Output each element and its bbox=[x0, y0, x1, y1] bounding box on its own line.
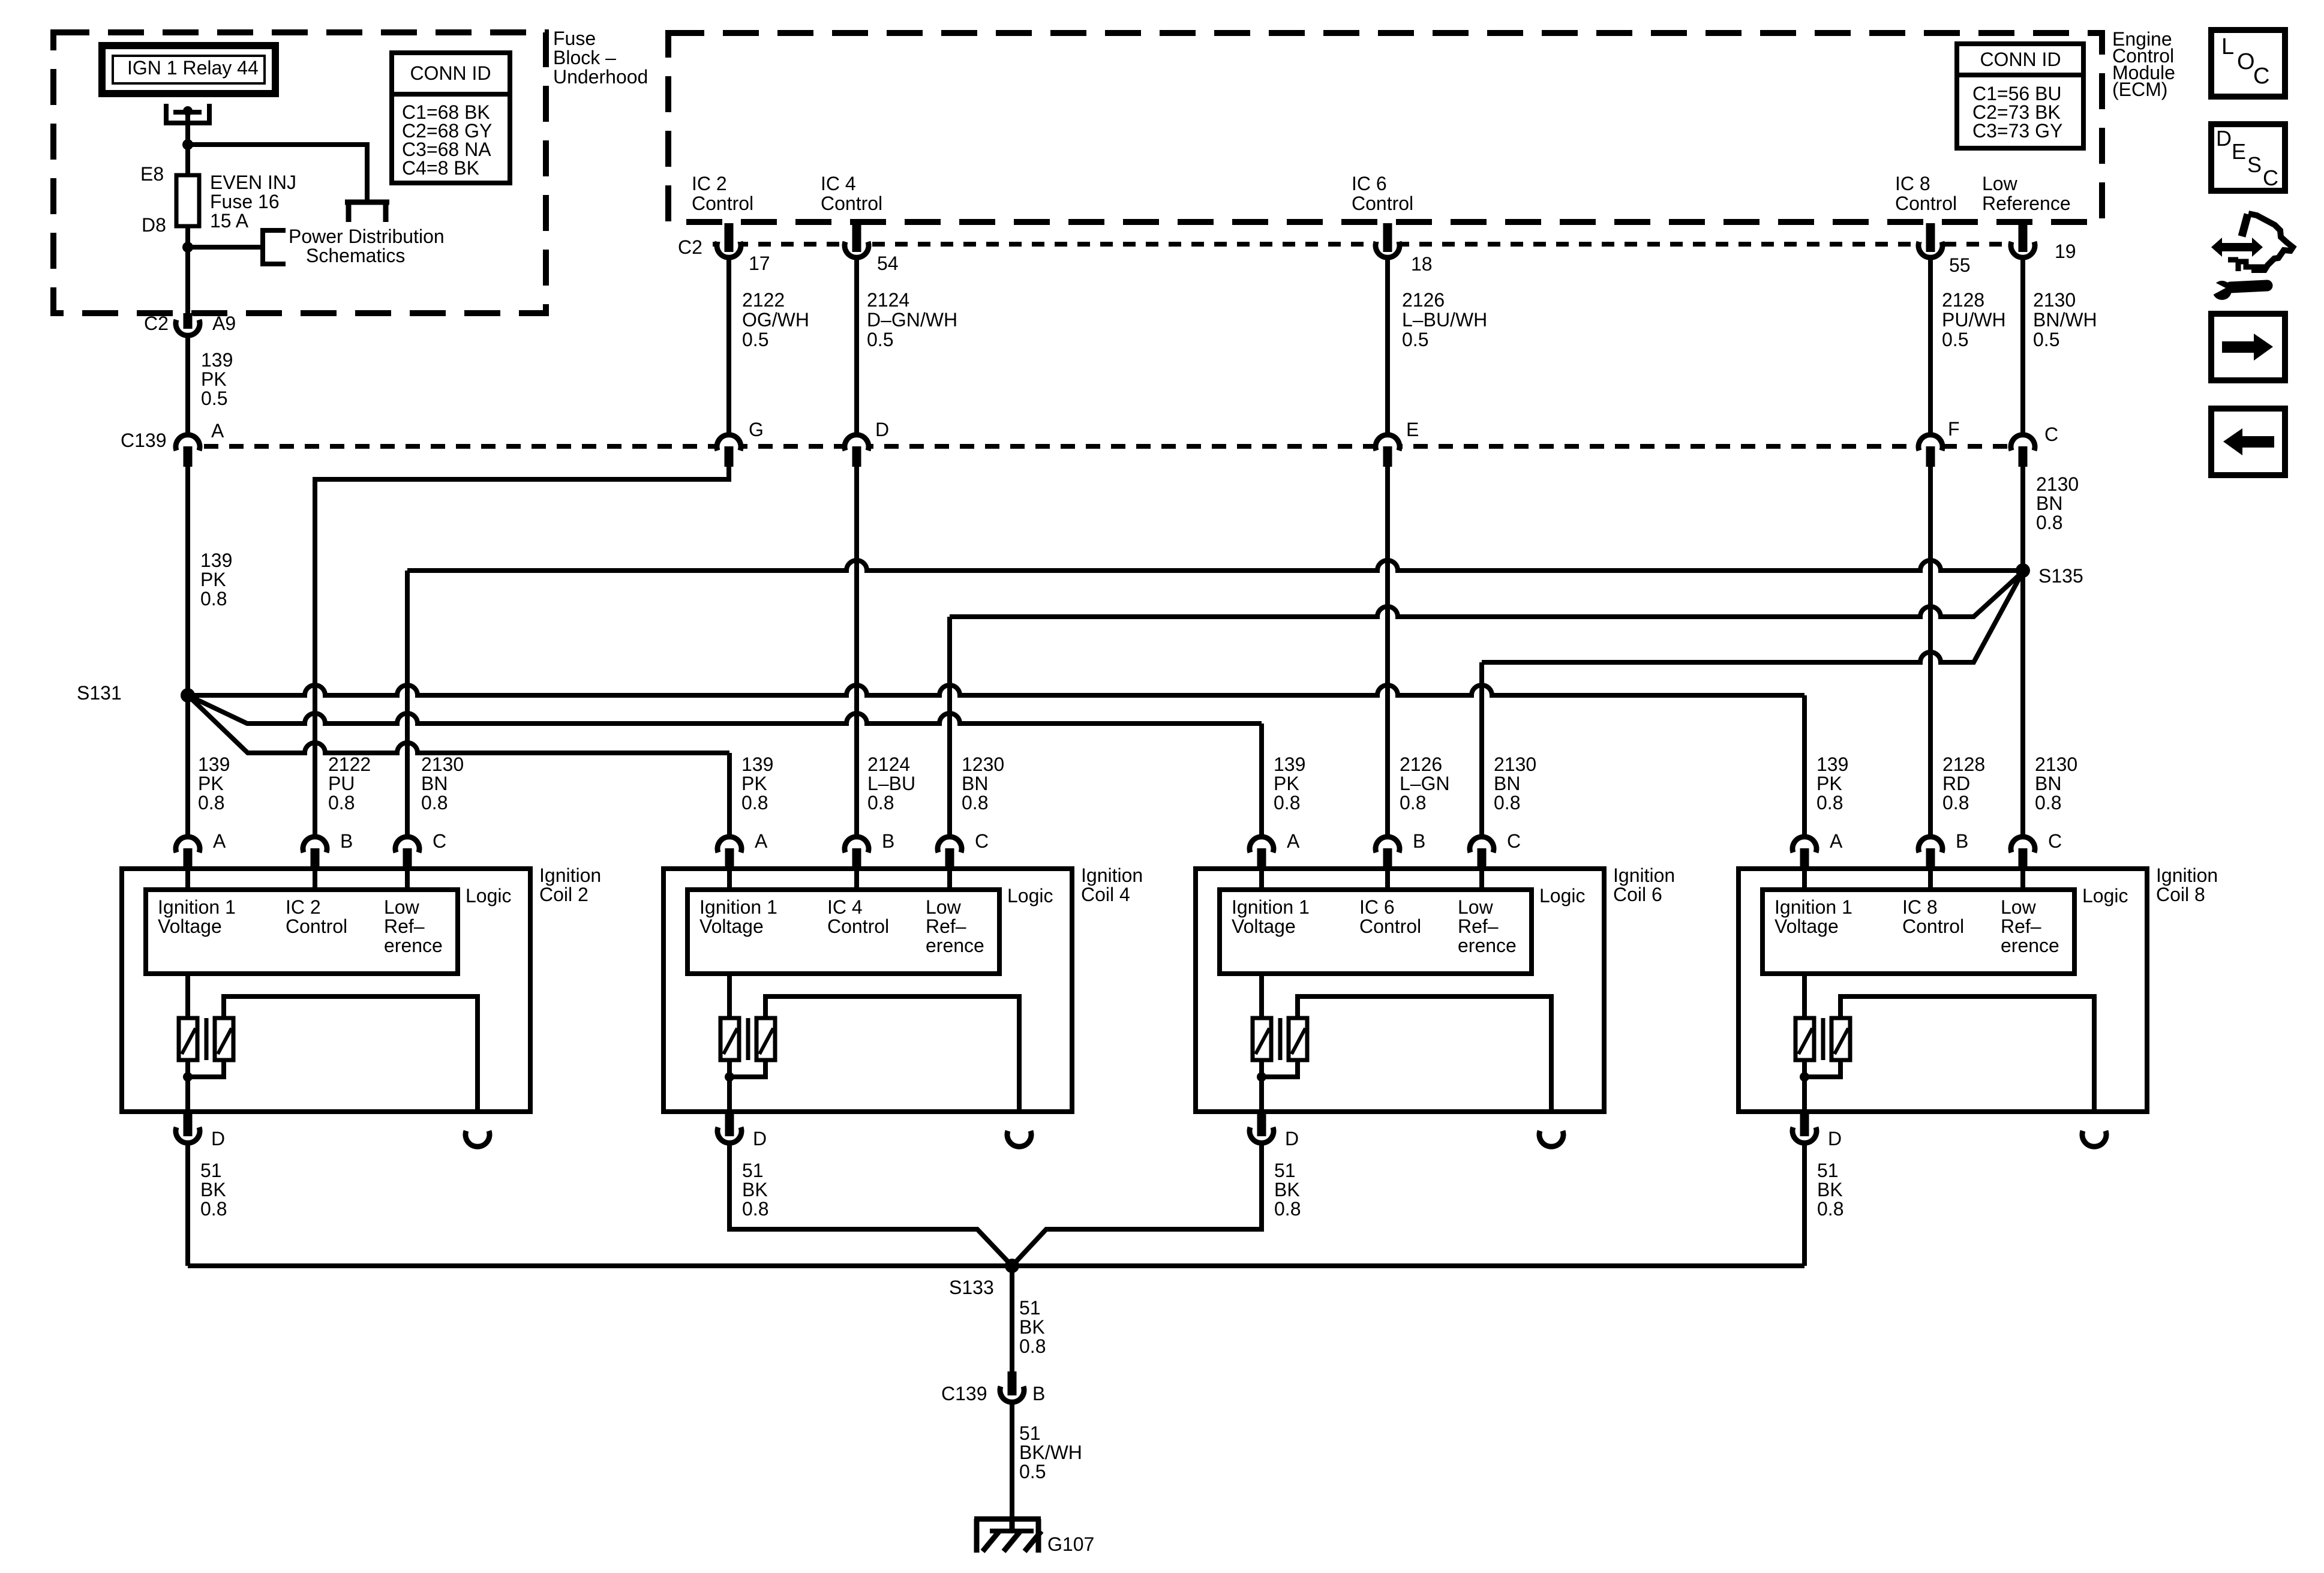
coil 8 core bbox=[1821, 1018, 1825, 1060]
svg-text:Ignition: Ignition bbox=[1613, 864, 1675, 886]
coil 8 pin C connector bbox=[2013, 839, 2032, 858]
svg-text:0.8: 0.8 bbox=[741, 792, 768, 813]
svg-text:BN: BN bbox=[421, 773, 448, 794]
coil 8 spark output connector bbox=[2085, 1125, 2104, 1145]
svg-text:PK: PK bbox=[1274, 773, 1299, 794]
svg-text:Coil 8: Coil 8 bbox=[2156, 884, 2205, 905]
svg-text:C: C bbox=[975, 830, 989, 852]
svg-text:139: 139 bbox=[200, 550, 232, 571]
wire fuse junction to bracket bbox=[188, 245, 262, 250]
svg-text:55: 55 bbox=[1949, 254, 1971, 276]
svg-text:A: A bbox=[1287, 830, 1300, 852]
svg-text:Power Distribution: Power Distribution bbox=[289, 226, 445, 247]
svg-text:B: B bbox=[340, 830, 353, 852]
connector C139 pin F bbox=[1921, 437, 1940, 456]
svg-text:A9: A9 bbox=[212, 313, 236, 334]
LOC icon box bbox=[2211, 30, 2285, 97]
bus 2130 BN row coil2 C to S135 bbox=[407, 560, 2023, 571]
ignition coil 6 outer box bbox=[1196, 869, 1604, 1112]
svg-text:2124: 2124 bbox=[867, 754, 910, 775]
svg-text:51: 51 bbox=[1019, 1422, 1041, 1444]
svg-text:OG/WH: OG/WH bbox=[742, 309, 809, 331]
svg-text:Logic: Logic bbox=[1007, 885, 1053, 906]
connector C139 pin G bbox=[719, 437, 738, 456]
wire 51 BK/WH C139-B to G107 bbox=[1010, 1403, 1014, 1520]
svg-text:PK: PK bbox=[200, 569, 226, 590]
svg-text:Schematics: Schematics bbox=[306, 245, 405, 266]
svg-text:2126: 2126 bbox=[1400, 754, 1442, 775]
svg-text:BK: BK bbox=[1019, 1316, 1045, 1338]
svg-text:51: 51 bbox=[1274, 1160, 1296, 1181]
ECM CONN ID table bbox=[1957, 44, 2083, 148]
svg-text:BN/WH: BN/WH bbox=[2033, 309, 2097, 331]
svg-text:D: D bbox=[2216, 126, 2232, 151]
bus 139 PK row from S131 to coil8 A bbox=[188, 685, 1804, 695]
bus 2130 BN row coil4 C to S135 bbox=[950, 572, 2023, 617]
svg-text:A: A bbox=[211, 420, 224, 442]
svg-text:139: 139 bbox=[201, 349, 233, 371]
svg-text:0.8: 0.8 bbox=[742, 1198, 768, 1220]
svg-text:15 A: 15 A bbox=[210, 210, 249, 232]
svg-text:0.5: 0.5 bbox=[1942, 329, 1968, 350]
power distribution bracket bbox=[263, 230, 286, 264]
svg-text:(ECM): (ECM) bbox=[2112, 79, 2167, 100]
svg-text:0.8: 0.8 bbox=[962, 792, 988, 813]
wire C139-G jog to coil2 pin B bbox=[315, 466, 729, 836]
svg-text:2124: 2124 bbox=[867, 289, 909, 311]
coil 4 primary winding bbox=[727, 974, 732, 1018]
svg-text:S131: S131 bbox=[77, 682, 122, 704]
svg-text:0.8: 0.8 bbox=[1019, 1335, 1046, 1357]
svg-text:Underhood: Underhood bbox=[553, 66, 648, 88]
svg-text:0.8: 0.8 bbox=[1816, 792, 1843, 813]
svg-text:C3=73 GY: C3=73 GY bbox=[1972, 120, 2062, 142]
wire coil4 pin C to low-ref row bbox=[947, 617, 952, 836]
svg-text:IC 4: IC 4 bbox=[821, 173, 856, 194]
svg-text:PK: PK bbox=[198, 773, 224, 794]
svg-text:E: E bbox=[1406, 419, 1419, 440]
svg-text:2130: 2130 bbox=[421, 754, 464, 775]
svg-text:erence: erence bbox=[926, 935, 984, 956]
svg-text:BK: BK bbox=[1274, 1179, 1300, 1200]
svg-text:BN: BN bbox=[962, 773, 988, 794]
svg-text:BN: BN bbox=[2036, 493, 2062, 514]
coil 2 pin A connector bbox=[178, 839, 197, 858]
next page arrow icon bbox=[2211, 314, 2285, 380]
coil 8 pin B connector bbox=[1921, 839, 1940, 858]
connector ECM pin 17 bbox=[719, 236, 738, 256]
coil 6 secondary to output wire bbox=[1298, 996, 1551, 1112]
wire coil6 pin A from splice row bbox=[1259, 724, 1264, 836]
svg-text:Control: Control bbox=[821, 193, 882, 214]
coil 4 core bbox=[746, 1018, 750, 1060]
svg-text:PK: PK bbox=[1816, 773, 1842, 794]
svg-text:D: D bbox=[1285, 1128, 1299, 1149]
coil 6 pin A connector bbox=[1252, 839, 1271, 858]
svg-text:51: 51 bbox=[1817, 1160, 1839, 1181]
wire coil6 pin C to low-ref row bbox=[1479, 662, 1484, 836]
wire IC8 pin55 through C139-F to coil8 pin B bbox=[1928, 257, 1933, 836]
svg-text:L–GN: L–GN bbox=[1400, 773, 1450, 794]
connector C139 pin B bbox=[1002, 1381, 1022, 1400]
wire IC6 pin18 through C139-E to coil6 pin B bbox=[1385, 257, 1390, 836]
svg-text:2126: 2126 bbox=[1402, 289, 1445, 311]
svg-text:Voltage: Voltage bbox=[1774, 915, 1839, 937]
svg-text:PU/WH: PU/WH bbox=[1942, 309, 2006, 331]
previous page arrow icon bbox=[2211, 409, 2285, 475]
node relay output junction bbox=[182, 139, 193, 150]
svg-text:C: C bbox=[2048, 830, 2062, 852]
svg-text:E: E bbox=[2232, 139, 2246, 164]
C139 dashed connector line bbox=[204, 444, 2038, 449]
fuse block underhood dashed box bbox=[53, 32, 546, 313]
ignition coil 6 logic box bbox=[1220, 890, 1532, 974]
wire coil2 pin D to ground bus bbox=[185, 1142, 190, 1266]
coil 4 pin A connector bbox=[720, 839, 739, 858]
svg-text:Logic: Logic bbox=[466, 885, 512, 906]
coil 4 winding common wire bbox=[729, 1060, 765, 1077]
connector C139 pin D bbox=[847, 437, 866, 456]
wire 139 PK 0.8 C139-A to coil2 pin A bbox=[185, 466, 190, 836]
svg-text:Logic: Logic bbox=[1539, 885, 1586, 906]
svg-text:Control: Control bbox=[1895, 193, 1957, 214]
svg-text:0.8: 0.8 bbox=[1817, 1198, 1843, 1220]
svg-text:2130: 2130 bbox=[1494, 754, 1536, 775]
coil 8 pin D connector bbox=[1795, 1122, 1814, 1141]
svg-text:Ignition: Ignition bbox=[539, 864, 601, 886]
wire coil8 pin A from splice row bbox=[1802, 695, 1807, 836]
connector C139 pin C bbox=[2013, 437, 2032, 456]
coil 6 primary winding bbox=[1259, 974, 1264, 1018]
svg-text:0.8: 0.8 bbox=[1274, 1198, 1301, 1220]
connector C139 pin E bbox=[1378, 437, 1397, 456]
svg-text:IC 2: IC 2 bbox=[286, 896, 321, 918]
svg-text:IC 4: IC 4 bbox=[827, 896, 863, 918]
svg-text:D–GN/WH: D–GN/WH bbox=[867, 309, 957, 331]
wire coil2 pin C from low-ref row bbox=[405, 571, 410, 836]
svg-text:D: D bbox=[753, 1128, 767, 1149]
svg-text:B: B bbox=[1032, 1383, 1045, 1404]
svg-text:S133: S133 bbox=[949, 1277, 994, 1298]
svg-text:Ref–: Ref– bbox=[384, 915, 425, 937]
ground G107 symbol bbox=[974, 1517, 1041, 1522]
svg-text:IGN 1 Relay 44: IGN 1 Relay 44 bbox=[127, 57, 259, 79]
svg-text:C2: C2 bbox=[144, 313, 169, 334]
relay IGN 1 Relay 44 box bbox=[102, 46, 275, 94]
svg-text:C: C bbox=[2263, 166, 2278, 190]
splice S131 bbox=[181, 688, 195, 703]
coil 2 secondary to output wire bbox=[224, 996, 478, 1112]
svg-text:D: D bbox=[875, 419, 889, 440]
ignition coil 2 outer box bbox=[122, 869, 530, 1112]
svg-text:G107: G107 bbox=[1047, 1533, 1094, 1555]
bus 139 PK row to coil4 A with S131 taper bbox=[188, 695, 729, 753]
svg-text:L–BU: L–BU bbox=[867, 773, 915, 794]
svg-text:G: G bbox=[749, 419, 764, 440]
coil 8 primary winding bbox=[1802, 974, 1807, 1018]
svg-text:Ref–: Ref– bbox=[2001, 915, 2041, 937]
svg-text:0.8: 0.8 bbox=[867, 792, 894, 813]
wire relay coil stem bbox=[185, 112, 190, 175]
coil 4 pin C connector bbox=[940, 839, 959, 858]
svg-text:0.8: 0.8 bbox=[1494, 792, 1520, 813]
ground bus to S133 and coil8 D bbox=[188, 1263, 1804, 1268]
svg-text:0.5: 0.5 bbox=[742, 329, 768, 350]
svg-text:EVEN INJ: EVEN INJ bbox=[210, 172, 296, 193]
svg-text:RD: RD bbox=[1942, 773, 1970, 794]
svg-text:0.8: 0.8 bbox=[421, 792, 448, 813]
ignition coil 8 logic box bbox=[1762, 890, 2074, 974]
svg-text:C139: C139 bbox=[941, 1383, 987, 1404]
svg-text:L–BU/WH: L–BU/WH bbox=[1402, 309, 1487, 331]
svg-text:C2: C2 bbox=[678, 236, 702, 258]
hand with wrench icon bbox=[2248, 214, 2293, 270]
svg-text:51: 51 bbox=[200, 1160, 222, 1181]
coil 2 core bbox=[205, 1018, 209, 1060]
coil 6 spark output connector bbox=[1542, 1125, 1561, 1145]
coil 2 secondary winding bbox=[215, 1018, 233, 1060]
svg-text:CONN ID: CONN ID bbox=[410, 62, 491, 84]
svg-text:IC 2: IC 2 bbox=[692, 173, 727, 194]
svg-text:BN: BN bbox=[2035, 773, 2061, 794]
splice S133 bbox=[1005, 1259, 1019, 1273]
svg-text:Coil 6: Coil 6 bbox=[1613, 884, 1662, 905]
svg-text:18: 18 bbox=[1411, 253, 1433, 275]
svg-text:Low: Low bbox=[926, 896, 962, 918]
svg-text:Low: Low bbox=[1458, 896, 1494, 918]
svg-text:Fuse 16: Fuse 16 bbox=[210, 191, 280, 212]
svg-text:D: D bbox=[1828, 1128, 1842, 1149]
svg-text:Low: Low bbox=[2001, 896, 2037, 918]
svg-text:51: 51 bbox=[1019, 1297, 1041, 1319]
svg-text:A: A bbox=[755, 830, 768, 852]
coil 8 pin A connector bbox=[1795, 839, 1814, 858]
svg-text:IC 6: IC 6 bbox=[1359, 896, 1395, 918]
wire low-ref pin19 through C139-C and S135 to coil8 pin C bbox=[2020, 257, 2025, 836]
svg-text:139: 139 bbox=[741, 754, 773, 775]
svg-text:Ref–: Ref– bbox=[1458, 915, 1499, 937]
svg-text:Reference: Reference bbox=[1982, 193, 2071, 214]
svg-text:O: O bbox=[2237, 49, 2255, 74]
svg-text:0.8: 0.8 bbox=[200, 588, 227, 610]
svg-text:139: 139 bbox=[198, 754, 230, 775]
svg-text:C: C bbox=[433, 830, 446, 852]
svg-text:2122: 2122 bbox=[328, 754, 371, 775]
svg-text:139: 139 bbox=[1274, 754, 1305, 775]
svg-text:D8: D8 bbox=[142, 214, 166, 236]
svg-text:Low: Low bbox=[1982, 173, 2018, 194]
wire coil8 pin D down bbox=[1802, 1142, 1807, 1266]
wire coil6 pin D feeder bbox=[1012, 1142, 1262, 1266]
svg-text:S135: S135 bbox=[2038, 565, 2083, 587]
ignition coil 4 outer box bbox=[663, 869, 1072, 1112]
svg-text:17: 17 bbox=[749, 253, 770, 274]
svg-text:C4=8 BK: C4=8 BK bbox=[402, 157, 479, 179]
svg-text:19: 19 bbox=[2055, 241, 2076, 262]
svg-text:IC 8: IC 8 bbox=[1902, 896, 1938, 918]
svg-text:B: B bbox=[882, 830, 894, 852]
svg-text:Control: Control bbox=[1352, 193, 1413, 214]
svg-text:L: L bbox=[2221, 34, 2234, 59]
coil 6 secondary winding bbox=[1289, 1018, 1307, 1060]
svg-text:Control: Control bbox=[692, 193, 753, 214]
svg-text:0.5: 0.5 bbox=[1019, 1461, 1046, 1482]
svg-text:Control: Control bbox=[1902, 915, 1964, 937]
coil 4 secondary to output wire bbox=[765, 996, 1019, 1112]
connector ECM pin 55 bbox=[1921, 236, 1940, 256]
ignition coil 2 logic box bbox=[146, 890, 458, 974]
svg-text:0.8: 0.8 bbox=[1942, 792, 1969, 813]
wire coil4 pin A from splice row bbox=[727, 753, 732, 836]
svg-text:B: B bbox=[1413, 830, 1425, 852]
coil 2 pin C connector bbox=[398, 839, 417, 858]
coil 2 winding common wire bbox=[188, 1060, 224, 1077]
svg-text:2130: 2130 bbox=[2035, 754, 2077, 775]
svg-text:0.8: 0.8 bbox=[1274, 792, 1300, 813]
coil 6 core bbox=[1278, 1018, 1283, 1060]
wire coil4 pin D feeder bbox=[729, 1142, 1012, 1266]
svg-text:S: S bbox=[2247, 152, 2262, 177]
coil 2 pin D connector bbox=[178, 1122, 197, 1141]
connector C2 pin A9 bbox=[178, 314, 197, 334]
svg-text:Control: Control bbox=[286, 915, 347, 937]
svg-text:BK: BK bbox=[200, 1179, 226, 1200]
splice S135 bbox=[2016, 563, 2030, 578]
wire fuse to C2 connector bbox=[185, 226, 190, 314]
ignition coil 8 outer box bbox=[1739, 869, 2147, 1112]
svg-text:0.8: 0.8 bbox=[1400, 792, 1426, 813]
svg-text:C: C bbox=[1507, 830, 1521, 852]
coil 4 pin D connector bbox=[720, 1122, 739, 1141]
engine control module dashed box bbox=[668, 33, 2102, 222]
svg-text:Fuse: Fuse bbox=[553, 28, 596, 49]
coil 4 pin B connector bbox=[847, 839, 866, 858]
svg-text:C139: C139 bbox=[121, 430, 167, 451]
svg-text:A: A bbox=[213, 830, 226, 852]
svg-text:Coil 4: Coil 4 bbox=[1081, 884, 1130, 905]
svg-text:B: B bbox=[1956, 830, 1968, 852]
fuse EVEN INJ rectangle bbox=[176, 175, 199, 226]
svg-text:Voltage: Voltage bbox=[1232, 915, 1296, 937]
bus 139 PK row to coil6 A with S131 taper bbox=[188, 695, 1262, 724]
svg-text:Ignition 1: Ignition 1 bbox=[158, 896, 236, 918]
svg-text:2122: 2122 bbox=[742, 289, 785, 311]
svg-text:0.5: 0.5 bbox=[867, 329, 893, 350]
bus 2130 BN row coil6 C to S135 bbox=[1482, 572, 2023, 662]
svg-text:CONN ID: CONN ID bbox=[1980, 49, 2061, 70]
svg-text:erence: erence bbox=[1458, 935, 1517, 956]
svg-text:54: 54 bbox=[877, 253, 899, 274]
connector C139 pin A bbox=[178, 437, 197, 456]
coil 6 pin C connector bbox=[1472, 839, 1491, 858]
svg-text:BK: BK bbox=[1817, 1179, 1843, 1200]
svg-text:Control: Control bbox=[827, 915, 889, 937]
svg-text:0.8: 0.8 bbox=[198, 792, 224, 813]
svg-text:C: C bbox=[2044, 424, 2058, 445]
svg-text:A: A bbox=[1830, 830, 1843, 852]
svg-text:Ignition: Ignition bbox=[1081, 864, 1143, 886]
coil 4 secondary winding bbox=[756, 1018, 775, 1060]
svg-text:E8: E8 bbox=[140, 163, 164, 185]
coil 4 spark output connector bbox=[1010, 1125, 1029, 1145]
svg-text:F: F bbox=[1948, 418, 1960, 440]
node fuse output junction bbox=[182, 242, 193, 253]
svg-text:D: D bbox=[211, 1128, 225, 1149]
svg-text:Ignition 1: Ignition 1 bbox=[699, 896, 777, 918]
connector ECM pin 18 bbox=[1378, 236, 1397, 256]
svg-text:BK/WH: BK/WH bbox=[1019, 1442, 1082, 1463]
connector ECM pin 19 bbox=[2013, 236, 2032, 256]
svg-text:Ref–: Ref– bbox=[926, 915, 966, 937]
svg-text:Logic: Logic bbox=[2082, 885, 2128, 906]
ignition coil 4 logic box bbox=[687, 890, 999, 974]
svg-text:PK: PK bbox=[741, 773, 767, 794]
svg-text:Voltage: Voltage bbox=[158, 915, 222, 937]
svg-text:IC 6: IC 6 bbox=[1352, 173, 1387, 194]
ECM dotted connector line bbox=[713, 242, 2007, 247]
svg-text:Voltage: Voltage bbox=[699, 915, 764, 937]
svg-text:PK: PK bbox=[201, 368, 227, 390]
coil 2 primary winding bbox=[185, 974, 190, 1018]
svg-text:C: C bbox=[2253, 64, 2269, 89]
svg-text:Coil 2: Coil 2 bbox=[539, 884, 588, 905]
svg-text:IC 8: IC 8 bbox=[1895, 173, 1930, 194]
svg-text:Block –: Block – bbox=[553, 47, 616, 68]
DESC icon box bbox=[2211, 124, 2285, 191]
svg-text:0.5: 0.5 bbox=[201, 388, 227, 409]
svg-text:2128: 2128 bbox=[1942, 754, 1985, 775]
coil 6 winding common wire bbox=[1262, 1060, 1298, 1077]
wire IC4 pin54 through C139-D to coil4 pin B bbox=[854, 257, 859, 836]
svg-text:Ignition 1: Ignition 1 bbox=[1774, 896, 1852, 918]
svg-text:PU: PU bbox=[328, 773, 355, 794]
svg-text:BN: BN bbox=[1494, 773, 1520, 794]
connector ECM pin 54 bbox=[847, 236, 866, 256]
svg-text:Control: Control bbox=[1359, 915, 1421, 937]
svg-text:0.8: 0.8 bbox=[2035, 792, 2061, 813]
wire IC2 pin17 to C139-G bbox=[726, 257, 731, 436]
coil 2 spark output connector bbox=[468, 1125, 487, 1145]
svg-text:0.8: 0.8 bbox=[328, 792, 355, 813]
svg-text:139: 139 bbox=[1816, 754, 1848, 775]
wire relay output to page symbol bbox=[188, 145, 367, 200]
svg-text:0.8: 0.8 bbox=[2036, 512, 2062, 533]
svg-text:0.8: 0.8 bbox=[200, 1198, 227, 1220]
coil 8 secondary winding bbox=[1831, 1018, 1850, 1060]
svg-text:1230: 1230 bbox=[962, 754, 1004, 775]
wire 139 PK 0.5 C2 to C139 bbox=[185, 334, 190, 436]
coil 8 secondary to output wire bbox=[1840, 996, 2094, 1112]
svg-text:erence: erence bbox=[2001, 935, 2059, 956]
svg-text:2130: 2130 bbox=[2033, 289, 2076, 311]
coil 8 winding common wire bbox=[1804, 1060, 1840, 1077]
svg-text:Low: Low bbox=[384, 896, 420, 918]
svg-text:51: 51 bbox=[742, 1160, 764, 1181]
coil 6 pin D connector bbox=[1252, 1122, 1271, 1141]
relay contact symbol bbox=[166, 104, 209, 123]
wire 51 BK S133 to C139-B bbox=[1010, 1266, 1014, 1374]
svg-text:BK: BK bbox=[742, 1179, 768, 1200]
svg-text:Ignition: Ignition bbox=[2156, 864, 2218, 886]
page reference symbol bbox=[349, 202, 386, 222]
fuse block CONN ID table bbox=[392, 53, 510, 183]
svg-text:erence: erence bbox=[384, 935, 443, 956]
coil 2 pin B connector bbox=[305, 839, 325, 858]
svg-text:0.5: 0.5 bbox=[2033, 329, 2059, 350]
svg-text:Ignition 1: Ignition 1 bbox=[1232, 896, 1310, 918]
svg-text:2130: 2130 bbox=[2036, 473, 2079, 495]
svg-text:0.5: 0.5 bbox=[1402, 329, 1428, 350]
